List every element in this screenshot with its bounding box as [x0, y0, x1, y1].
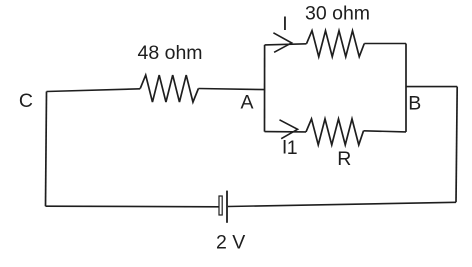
current arrow I on top branch [273, 33, 291, 53]
svg-text:R: R [337, 148, 351, 170]
svg-text:30 ohm: 30 ohm [305, 2, 370, 24]
wire: C corner to 48-ohm resistor (top left) [47, 89, 141, 92]
wire: node B stub to outer right side [406, 86, 457, 88]
wire: 48-ohm resistor to node A [198, 89, 264, 90]
wire: outer left vertical [46, 92, 47, 207]
wire: top branch left segment [265, 44, 307, 45]
current arrow I1 on bottom branch [280, 120, 298, 139]
resistor R2 30 ohm zigzag [307, 31, 365, 57]
wire: left vertical side of parallel section (node A) [264, 45, 266, 132]
wire: bottom right segment (battery to right side) [228, 202, 456, 206]
svg-text:2 V: 2 V [216, 232, 245, 254]
wire: bottom branch left segment [265, 131, 307, 133]
svg-text:48 ohm: 48 ohm [138, 42, 203, 64]
resistor R1 48 ohm zigzag [140, 75, 198, 102]
svg-text:B: B [408, 93, 421, 115]
svg-text:I: I [282, 13, 287, 35]
svg-text:C: C [19, 90, 33, 112]
resistor R3 (R) zigzag [306, 119, 364, 145]
svg-text:A: A [241, 91, 254, 113]
battery positive plate (long) [226, 191, 228, 223]
svg-text:1: 1 [287, 137, 298, 159]
wire: outer right vertical [456, 87, 457, 203]
wire: bottom left segment (left side to battery) [46, 205, 219, 208]
wire: right vertical side of parallel section (node B) [405, 44, 407, 132]
wire: bottom branch right segment [364, 131, 407, 132]
battery negative plate (short) [219, 196, 222, 215]
wire: top branch right segment [364, 43, 406, 45]
